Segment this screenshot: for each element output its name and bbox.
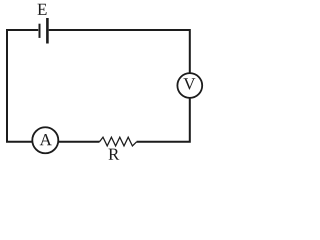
wire left and top-left segment [7,30,38,142]
label E [38,4,47,15]
label A [40,134,52,145]
wire bottom-mid segment [59,141,100,143]
battery E tall plate [46,18,49,44]
resistor R zigzag [100,137,137,146]
wire top-right segment and right upper [49,30,190,74]
voltmeter V circle [177,73,202,98]
label R [109,149,120,160]
label V [183,78,195,89]
ammeter A circle [32,127,58,153]
battery E short plate [39,24,41,38]
wire right lower and bottom-right segment [137,98,190,142]
